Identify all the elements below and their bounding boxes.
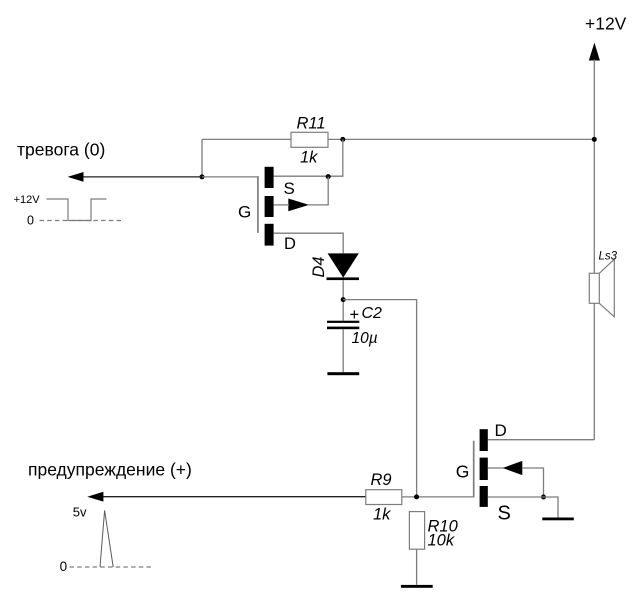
transistor T1 gate line [257, 176, 259, 233]
speaker Ls3 horn [599, 259, 614, 317]
svg-text:предупреждение (+): предупреждение (+) [28, 460, 192, 480]
arrowhead warning output [87, 492, 103, 502]
transistor T2 middle bar [480, 458, 488, 480]
transistor T1 top bar (S) [265, 167, 274, 188]
wire alarm line (dark) [83, 176, 202, 178]
wire left drop to alarm line [201, 139, 203, 177]
transistor T2 bottom bar (S) [480, 486, 488, 507]
junction dot alarm line [200, 174, 205, 179]
speaker Ls3 body [589, 273, 599, 303]
wire T1 substrate arrow to source node [309, 177, 329, 205]
waveform2 spike [100, 510, 113, 567]
wire T1 drain to diode [274, 233, 344, 253]
wire +12V rail vertical [593, 60, 595, 440]
waveform1 dashed baseline [40, 220, 124, 222]
diode D4 triangle [328, 253, 359, 277]
wire warning line (dark) [103, 496, 366, 498]
capacitor C2 bottom plate [327, 327, 359, 330]
svg-text:C2: C2 [362, 305, 383, 322]
wire alarm dot to T1 gate [202, 176, 259, 178]
svg-text:10k: 10k [428, 531, 455, 549]
ground C2 [327, 372, 359, 375]
svg-text:G: G [456, 462, 470, 482]
svg-text:D: D [284, 235, 296, 253]
svg-text:D: D [495, 421, 507, 440]
wire main +12V horizontal bus [202, 138, 594, 140]
svg-text:D4: D4 [310, 256, 328, 277]
resistor R10 body [409, 512, 424, 550]
junction dot R9/R10 node [414, 494, 419, 499]
wire R11 output down to T1 source [274, 139, 343, 176]
ground T2 source [542, 518, 574, 521]
resistor R9 body [366, 490, 402, 505]
wire T2 substrate arrow to source [522, 468, 544, 497]
svg-text:Ls3: Ls3 [599, 250, 618, 262]
junction dot T1 source node [326, 174, 331, 179]
transistor T1 middle bar [265, 196, 274, 217]
waveform1 square pulse [47, 199, 107, 221]
svg-text:5v: 5v [73, 505, 87, 520]
svg-text:0: 0 [60, 559, 68, 574]
wire branch to R9/R10 node [343, 300, 416, 497]
svg-text:S: S [498, 502, 511, 524]
junction dot R11 output [340, 137, 345, 142]
svg-text:R11: R11 [297, 115, 326, 133]
transistor T2 top bar (D) [480, 429, 488, 451]
wire R9 to T2 gate [402, 496, 473, 498]
svg-text:+12V: +12V [585, 14, 627, 34]
wire C2 to ground [342, 329, 344, 372]
svg-text:тревога (0): тревога (0) [17, 139, 105, 159]
svg-text:10µ: 10µ [352, 330, 378, 347]
diode D4 cathode bar [327, 277, 360, 280]
junction dot C2 node [341, 297, 346, 302]
svg-text:0: 0 [27, 214, 34, 228]
svg-text:1k: 1k [300, 148, 318, 166]
power symbol +12V arrow [589, 43, 600, 61]
svg-text:+12V: +12V [14, 194, 41, 206]
T2 substrate arrow [503, 461, 523, 475]
wire T2 middle bar to substrate arrow [488, 467, 504, 469]
svg-text:G: G [238, 203, 251, 222]
svg-text:R9: R9 [371, 471, 392, 489]
wire R10 to ground [416, 549, 418, 585]
arrowhead alarm output [68, 172, 84, 182]
waveform2 dashed baseline [70, 566, 154, 568]
junction dot rail/bus [592, 137, 597, 142]
wire T1 middle bar to arrow [274, 204, 289, 206]
capacitor C2 top plate [327, 321, 359, 323]
resistor R11 body [291, 132, 328, 147]
wire T2 source to ground [488, 497, 558, 518]
wire T2 drain horizontal [488, 439, 595, 441]
ground R10 [401, 585, 433, 588]
transistor T2 gate line [473, 441, 475, 498]
wire diode to C2 node [342, 280, 344, 321]
svg-text:1k: 1k [373, 506, 391, 524]
svg-text:S: S [284, 179, 295, 198]
transistor T1 bottom bar (D) [265, 224, 274, 246]
T1 substrate arrow [288, 199, 309, 212]
junction dot T2 source node [541, 495, 546, 500]
